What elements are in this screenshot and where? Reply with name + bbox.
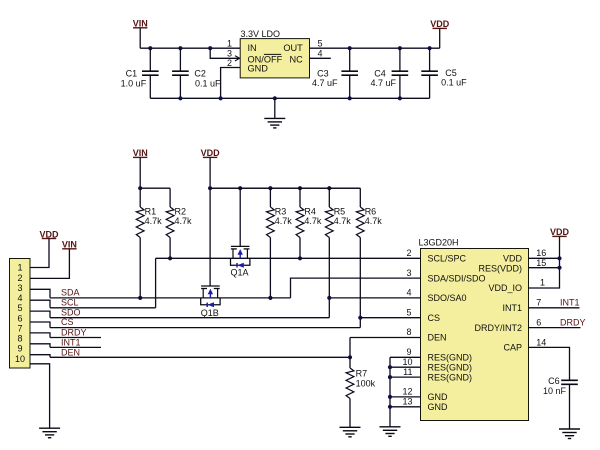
wire VIN down to R1	[139, 157, 141, 207]
wire VIN rail to R2	[140, 187, 170, 189]
svg-text:L3GD20H: L3GD20H	[419, 238, 459, 248]
wire CS riser to chip pin 5 row	[359, 318, 361, 328]
svg-text:SCL: SCL	[61, 297, 79, 307]
svg-text:IN: IN	[248, 43, 257, 53]
svg-text:CAP: CAP	[503, 343, 522, 353]
svg-text:2: 2	[17, 273, 22, 283]
svg-text:RES(GND): RES(GND)	[428, 362, 473, 372]
svg-text:1: 1	[227, 38, 232, 48]
ground (R7)	[340, 427, 361, 437]
svg-text:4.7k: 4.7k	[145, 216, 163, 226]
svg-text:100k: 100k	[356, 378, 376, 388]
svg-text:4.7k: 4.7k	[175, 216, 193, 226]
capacitor C4	[371, 48, 409, 98]
wire DEN connector row	[50, 356, 350, 358]
wire connector pin 8 to INT1 row	[30, 344, 50, 348]
wire DRDY connector stub	[50, 337, 101, 339]
wire SCL net row through Q1A to chip pin 2	[156, 257, 421, 259]
node input rail at ON/OFF branch	[208, 46, 212, 50]
wire chip pin 4 row SDO/SA0	[329, 297, 420, 299]
svg-text:GND: GND	[428, 392, 449, 402]
svg-text:9: 9	[17, 344, 22, 354]
svg-text:C6: C6	[548, 376, 560, 386]
resistor R1	[136, 207, 162, 238]
svg-text:OUT: OUT	[283, 43, 303, 53]
wire SCL connector row	[50, 307, 156, 309]
svg-text:1: 1	[540, 278, 545, 288]
wire ground stub under LDO	[274, 98, 276, 118]
ground (top circuit)	[264, 118, 285, 128]
wire LDO pin 2 GND to bottom rail	[221, 68, 241, 99]
capacitor C3	[312, 48, 358, 98]
svg-text:4: 4	[318, 49, 323, 59]
node VDD rail junction	[208, 186, 212, 190]
wire connector pin 3 to SDA row	[30, 289, 50, 298]
node output rail at C3	[348, 46, 352, 50]
power symbol VDD (top right)	[430, 19, 450, 29]
svg-text:8: 8	[17, 334, 22, 344]
svg-text:R7: R7	[356, 369, 368, 379]
power symbol VDD (middle)	[201, 148, 221, 158]
wire input rail (VIN to LDO pin 1 IN)	[140, 47, 240, 49]
transistor Q1A	[231, 246, 250, 277]
power symbol VIN (connector)	[62, 240, 77, 250]
wire R5 to SDO junction	[328, 238, 330, 298]
wire VIN to input rail	[139, 28, 141, 48]
node R3 at SDA chip row	[268, 296, 272, 300]
wire chip pin 7 INT1 stub	[529, 307, 580, 309]
wire chip pin 5 row CS	[360, 317, 420, 319]
svg-text:4.7k: 4.7k	[365, 216, 383, 226]
svg-text:R2: R2	[175, 207, 187, 217]
wire VDD to output rail	[439, 28, 441, 48]
wire VDD rail to resistors	[210, 187, 360, 189]
wire connector pin 6 to CS row	[30, 322, 50, 328]
wire R6 to CS junction	[359, 238, 361, 318]
wire connector pin 1 to VDD	[30, 239, 49, 268]
node R4 at SCL chip row	[298, 256, 302, 260]
node input rail at C1	[148, 46, 152, 50]
node bottom rail at ground	[273, 96, 277, 100]
node output rail at C4	[398, 46, 402, 50]
resistor R7	[346, 357, 376, 398]
svg-text:DRDY/INT2: DRDY/INT2	[474, 323, 522, 333]
resistor R3	[267, 188, 293, 237]
svg-text:5: 5	[406, 307, 411, 317]
resistor R4	[296, 188, 322, 237]
capacitor C6	[543, 376, 578, 396]
wire chip pin 16 VDD	[529, 257, 560, 259]
node bottom rail at C2	[178, 96, 182, 100]
svg-text:INT1: INT1	[502, 303, 522, 313]
svg-text:2: 2	[406, 248, 411, 258]
svg-text:GND: GND	[428, 402, 449, 412]
transistor Q1B	[201, 286, 220, 318]
svg-text:DEN: DEN	[61, 347, 80, 357]
node output rail at C5	[428, 46, 432, 50]
power symbol VDD (connector)	[39, 229, 59, 239]
node VDD at pin 15	[557, 266, 561, 270]
wire SDA step up to chip pin 3	[291, 278, 421, 298]
svg-text:4.7k: 4.7k	[304, 216, 322, 226]
svg-text:10: 10	[15, 354, 25, 364]
svg-text:R5: R5	[334, 207, 346, 217]
node VDD rail at R5	[327, 186, 331, 190]
svg-text:C5: C5	[445, 68, 457, 78]
wire R3 to SDA chip row	[269, 238, 271, 298]
svg-text:SDA/SDI/SDO: SDA/SDI/SDO	[428, 273, 486, 283]
resistor R2	[166, 188, 192, 237]
wire chip pin 6 DRDY stub	[529, 327, 581, 329]
capacitor C1	[121, 48, 159, 98]
capacitor C5	[421, 48, 467, 98]
power symbol VIN (middle)	[133, 148, 148, 158]
svg-text:VDD: VDD	[503, 254, 523, 264]
node bottom rail at LDO GND	[219, 96, 223, 100]
svg-text:DRDY: DRDY	[61, 327, 87, 337]
svg-text:2: 2	[227, 58, 232, 68]
wire CS connector row	[50, 327, 360, 329]
svg-text:NC: NC	[290, 54, 304, 64]
svg-text:4.7k: 4.7k	[334, 216, 352, 226]
svg-text:8: 8	[406, 327, 411, 337]
IC U2 L3GD20H box	[419, 238, 529, 421]
svg-text:RES(VDD): RES(VDD)	[478, 263, 522, 273]
node VIN rail junction	[138, 186, 142, 190]
svg-text:12: 12	[402, 387, 412, 397]
power symbol VIN (top)	[133, 19, 148, 29]
wire branch to LDO pin 3 ON/OFF	[210, 48, 239, 58]
svg-text:10: 10	[402, 357, 412, 367]
svg-text:SDA: SDA	[61, 288, 80, 298]
wire SDO connector row	[50, 317, 329, 319]
svg-text:R1: R1	[145, 207, 157, 217]
svg-text:3.3V LDO: 3.3V LDO	[241, 29, 281, 39]
wire chip pin 14 CAP to C6	[529, 347, 570, 380]
svg-text:14: 14	[536, 337, 546, 347]
svg-text:10 nF: 10 nF	[543, 386, 567, 396]
svg-text:6: 6	[536, 318, 541, 328]
svg-text:Q1B: Q1B	[201, 308, 219, 318]
node R1 at SDA row	[138, 296, 142, 300]
resistor R6	[210, 188, 382, 237]
wire ground bus pins 9-13	[389, 357, 391, 427]
ground (chip GND pins)	[380, 427, 401, 437]
svg-text:0.1 uF: 0.1 uF	[441, 77, 467, 87]
node input rail at C2	[178, 46, 182, 50]
node VDD rail at Q1A gate	[238, 186, 242, 190]
svg-text:VDD_IO: VDD_IO	[488, 283, 522, 293]
wire R2 to SCL row	[169, 238, 171, 259]
wire connector pin 4 to SCL row	[30, 300, 50, 308]
svg-text:4.7 uF: 4.7 uF	[312, 78, 338, 88]
svg-text:7: 7	[536, 298, 541, 308]
svg-text:4.7 uF: 4.7 uF	[371, 78, 397, 88]
svg-text:INT1: INT1	[560, 298, 580, 308]
svg-text:5: 5	[318, 38, 323, 48]
node ground bus at pin 11	[388, 375, 392, 379]
wire connector pin 2 to VIN	[30, 249, 69, 279]
node VDD rail at R4	[298, 186, 302, 190]
svg-text:13: 13	[402, 397, 412, 407]
wire chip pin 10 RES(GND)	[390, 366, 421, 368]
svg-text:1.0 uF: 1.0 uF	[121, 78, 147, 88]
node ground bus at pin 13	[388, 405, 392, 409]
svg-text:CS: CS	[61, 317, 74, 327]
wire stub LDO pin 4 NC	[310, 57, 331, 59]
svg-text:SCL/SPC: SCL/SPC	[428, 254, 467, 264]
resistor R5	[325, 188, 351, 237]
wire C6 to ground	[569, 385, 571, 429]
wire connector pin 9 to DEN row	[30, 355, 50, 358]
svg-text:5: 5	[17, 303, 22, 313]
svg-text:15: 15	[536, 258, 546, 268]
svg-text:R3: R3	[275, 207, 287, 217]
wire R7 to ground	[349, 399, 351, 428]
svg-text:DRDY: DRDY	[560, 318, 586, 328]
svg-text:4.7k: 4.7k	[275, 216, 293, 226]
wire bottom ground rail	[150, 97, 429, 99]
wire chip pin 11 RES(GND)	[390, 376, 421, 378]
node bottom rail at C4	[398, 96, 402, 100]
svg-text:Q1A: Q1A	[231, 268, 249, 278]
svg-text:SDO/SA0: SDO/SA0	[428, 293, 467, 303]
wire chip pin 8 row DEN	[350, 337, 421, 339]
wire chip pin 12 GND	[390, 396, 421, 398]
connector J1 10-pin header box	[10, 259, 31, 369]
svg-text:GND: GND	[248, 63, 269, 73]
ground (connector)	[39, 428, 60, 438]
svg-text:3: 3	[406, 268, 411, 278]
wire LDO output rail (pin 5 OUT to VDD)	[310, 47, 440, 49]
wire Q1A gate	[239, 188, 241, 246]
wire SCL riser from connector row	[155, 258, 157, 308]
svg-text:RES(GND): RES(GND)	[428, 372, 473, 382]
node SDO/R5 at chip pin 4 row	[327, 296, 331, 300]
svg-text:R6: R6	[365, 207, 377, 217]
wire INT1 connector stub	[50, 346, 101, 348]
node ground bus at pin 10	[388, 365, 392, 369]
svg-text:3: 3	[17, 283, 22, 293]
svg-text:CS: CS	[428, 313, 441, 323]
svg-text:INT1: INT1	[61, 337, 81, 347]
wire R4 to SCL chip row	[299, 238, 301, 259]
svg-text:SDO: SDO	[61, 307, 81, 317]
power symbol VDD (chip)	[550, 227, 570, 237]
wire chip pin 13 GND	[390, 406, 421, 408]
wire SDA connector row	[49, 297, 51, 299]
svg-text:6: 6	[17, 313, 22, 323]
node DEN row at R7	[348, 355, 352, 359]
wire R1 to SDA row	[139, 238, 141, 298]
node R2 at SCL chip row	[168, 256, 172, 260]
svg-text:DEN: DEN	[428, 333, 447, 343]
svg-text:9: 9	[406, 347, 411, 357]
wire VDD down to chip pin 1 VDD_IO	[529, 236, 560, 288]
pin arrow LDO pin 3	[235, 56, 240, 61]
wire VDD down to Q1B gate	[209, 157, 211, 286]
op-amp U1 3.3V LDO regulator box	[240, 29, 309, 78]
svg-text:C1: C1	[126, 68, 138, 78]
node bottom rail at C3	[348, 96, 352, 100]
node CS/R6 at chip pin 5 row	[358, 316, 362, 320]
svg-text:RES(GND): RES(GND)	[428, 353, 473, 363]
svg-text:C4: C4	[374, 68, 386, 78]
wire connector pin 5 to SDO row	[30, 311, 50, 318]
node VDD at pin 16	[557, 256, 561, 260]
wire chip pin 9 RES(GND)	[390, 356, 421, 358]
ground (C6)	[559, 429, 580, 439]
svg-text:C3: C3	[317, 68, 329, 78]
svg-text:1: 1	[17, 263, 22, 273]
wire chip pin 15 RES(VDD)	[529, 267, 560, 269]
svg-text:0.1 uF: 0.1 uF	[195, 78, 221, 88]
capacitor C2	[172, 48, 221, 98]
svg-text:16: 16	[536, 248, 546, 258]
node VDD rail at R3	[268, 186, 272, 190]
svg-text:7: 7	[17, 323, 22, 333]
node ground bus at pin 12	[388, 395, 392, 399]
wire DEN riser to chip pin 8 row	[349, 338, 351, 358]
svg-text:R4: R4	[304, 207, 316, 217]
wire connector pin 10 to ground	[30, 364, 50, 428]
svg-text:4: 4	[406, 288, 411, 298]
wire connector pin 7 to DRDY row	[30, 333, 50, 338]
svg-text:C2: C2	[194, 68, 206, 78]
wire SDO riser to chip pin 4 row	[328, 298, 330, 318]
svg-text:11: 11	[403, 367, 412, 377]
wire SDA net row through Q1B	[50, 297, 291, 299]
svg-text:4: 4	[17, 293, 22, 303]
